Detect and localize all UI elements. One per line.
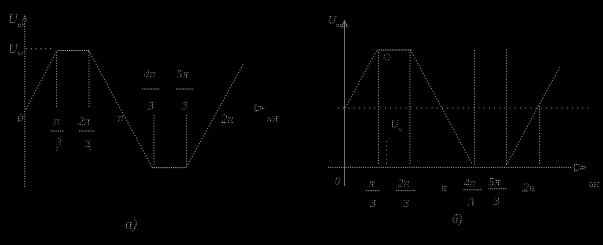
dot tails under fraction threes — [57, 147, 91, 152]
svg-text:π: π — [118, 111, 125, 125]
svg-text:3: 3 — [402, 196, 409, 210]
y-axis arrowhead left plot — [22, 16, 27, 22]
small circle mark near flat top — [384, 54, 390, 60]
node 4pi/3 fraction label right — [464, 176, 483, 210]
wire: rising edge 1 left waveform — [26, 51, 57, 110]
guide pi/3 vertical — [56, 52, 58, 107]
svg-text:б): б) — [452, 212, 462, 226]
node pi/3 fraction label — [51, 114, 64, 150]
svg-text:0: 0 — [335, 176, 341, 188]
svg-text:0: 0 — [18, 113, 24, 125]
svg-text:2π: 2π — [78, 114, 91, 128]
node 5pi/3 fraction label — [176, 67, 194, 113]
wire: flat top left waveform — [58, 50, 90, 52]
small dot trace under U0 label — [386, 141, 388, 166]
x-axis arrowhead right plot — [574, 164, 586, 171]
svg-text:3: 3 — [493, 194, 500, 208]
wire: rising edge 1 right waveform — [346, 49, 378, 108]
svg-text:2π: 2π — [221, 112, 234, 126]
y-axis arrowhead right plot — [342, 21, 348, 28]
svg-text:а): а) — [125, 217, 137, 233]
U_m dashed level line — [26, 48, 53, 50]
svg-text:ωt: ωt — [267, 111, 279, 125]
node 5pi/3 fraction label right — [489, 175, 508, 209]
svg-text:π: π — [369, 176, 376, 190]
svg-text:4π: 4π — [144, 67, 157, 81]
svg-text:ωt: ωt — [589, 178, 601, 190]
y-axis left plot — [24, 16, 26, 187]
guide 4pi/3 vertical — [153, 115, 155, 166]
svg-text:2π: 2π — [398, 176, 411, 190]
svg-text:5π: 5π — [177, 67, 190, 81]
guide 5pi/3 vertical right — [506, 50, 508, 165]
x-axis right plot — [328, 166, 573, 168]
y-axis right plot — [344, 21, 346, 186]
svg-text:2π: 2π — [523, 181, 536, 195]
svg-text:4π: 4π — [464, 176, 477, 190]
wire: rising edge 2 left waveform — [187, 65, 244, 168]
guide 2pi/3 vertical right — [409, 52, 411, 165]
guide pi/3 vertical right — [378, 52, 380, 165]
guide 5pi/3 vertical — [186, 115, 188, 166]
wire: flat top right waveform — [378, 49, 413, 51]
wire: falling edge right waveform — [411, 50, 473, 165]
svg-text:3: 3 — [468, 195, 475, 209]
svg-text:5π: 5π — [489, 175, 502, 189]
svg-text:3: 3 — [55, 137, 62, 149]
wire: flat bottom left waveform — [152, 167, 187, 169]
svg-text:3: 3 — [369, 196, 376, 210]
wire: final rising edge right waveform — [507, 68, 560, 166]
node 2pi/3 fraction label right — [396, 176, 416, 211]
U0 mid level dashed line — [338, 107, 589, 109]
node 4pi/3 fraction label — [142, 67, 160, 113]
node 2pi/3 fraction label — [78, 114, 95, 151]
guide 2pi/3 vertical — [88, 52, 90, 108]
node pi/3 fraction label right — [366, 176, 380, 211]
svg-text:π: π — [441, 181, 448, 195]
svg-text:3: 3 — [181, 101, 188, 113]
guide 2pi vertical right — [539, 106, 541, 165]
svg-text:π: π — [54, 114, 61, 128]
svg-text:3: 3 — [84, 138, 91, 150]
guide 4pi/3 vertical right — [474, 50, 476, 165]
x-axis arrowhead left plot — [255, 105, 264, 112]
svg-text:3: 3 — [147, 101, 154, 113]
wire: falling edge left waveform — [89, 51, 152, 167]
